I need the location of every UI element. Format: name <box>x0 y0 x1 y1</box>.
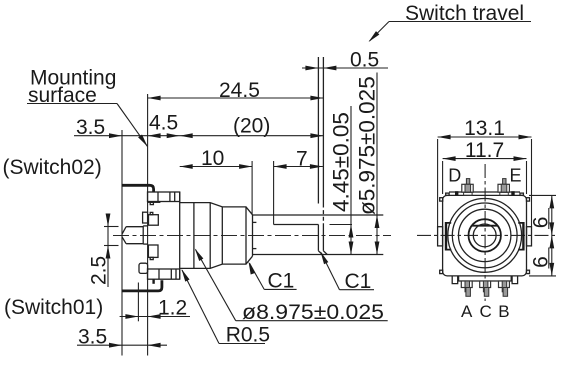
svg-text:1.2: 1.2 <box>158 297 187 320</box>
side tab left <box>438 227 443 246</box>
bushing face <box>252 215 254 256</box>
svg-text:(Switch02): (Switch02) <box>3 156 102 179</box>
svg-text:0.5: 0.5 <box>350 48 379 71</box>
horizontal centerline <box>417 234 556 236</box>
flat extension segment <box>330 224 353 226</box>
leader ø8.975±0.025 <box>236 320 388 322</box>
plunger housing <box>143 225 147 227</box>
push plunger <box>126 226 143 228</box>
side bracket right (black) <box>518 222 524 251</box>
dimension 6 upper <box>529 194 556 196</box>
shaft flat line <box>274 224 319 226</box>
top black tabs <box>455 191 458 195</box>
dimension 3.5 lower <box>77 344 167 346</box>
bushing cone bottom profile <box>180 256 253 268</box>
body inner step below top lug <box>148 201 161 203</box>
bottom lug row <box>148 269 180 279</box>
leader C1 left <box>264 288 296 290</box>
pin E <box>503 179 506 185</box>
svg-text:10: 10 <box>201 147 224 170</box>
dimension 11.7 <box>442 161 444 194</box>
dimension 13.1 <box>437 139 439 227</box>
top terminal (thick bent leg) <box>122 185 154 192</box>
bottom strip <box>459 276 512 281</box>
circles <box>448 199 522 273</box>
svg-text:24.5: 24.5 <box>219 79 260 102</box>
svg-text:2.5: 2.5 <box>88 256 111 285</box>
PCB reference line x=122 <box>121 130 123 356</box>
top seam line <box>449 191 520 193</box>
dimension 2.5 <box>104 226 119 228</box>
body right edge <box>179 192 181 279</box>
shaft end face (pressed) <box>317 57 319 204</box>
svg-text:3.5: 3.5 <box>78 325 107 348</box>
dimension ø5.975±0.025 <box>376 73 378 255</box>
dimension 10 <box>180 166 252 168</box>
bushing verticals <box>193 203 195 269</box>
dimension 0.5 switch travel <box>302 67 388 69</box>
svg-text:B: B <box>498 302 509 321</box>
dimension 1.2 <box>137 283 139 322</box>
bottom lug stub <box>152 279 154 284</box>
svg-text:C1: C1 <box>345 270 372 293</box>
shaft bottom line + extension <box>253 254 384 256</box>
bushing cone top profile <box>180 203 253 215</box>
svg-text:C1: C1 <box>268 270 295 293</box>
svg-text:ø8.975±0.025: ø8.975±0.025 <box>242 301 384 324</box>
svg-text:R0.5: R0.5 <box>226 323 270 346</box>
corner ears right <box>527 198 530 201</box>
pin A <box>461 281 472 288</box>
face nubs at shaft exit <box>253 221 257 223</box>
lower detent box <box>148 245 158 257</box>
lower left tab <box>139 263 148 273</box>
svg-text:11.7: 11.7 <box>465 139 504 162</box>
upper left tab <box>143 212 148 223</box>
travel reference line <box>322 57 324 204</box>
svg-text:13.1: 13.1 <box>464 117 505 140</box>
shaft end chamfer C1 <box>318 251 322 255</box>
body square <box>443 195 527 276</box>
side bracket left (black) <box>445 222 451 251</box>
top lug row <box>148 192 180 202</box>
svg-text:ø5.975±0.025: ø5.975±0.025 <box>355 76 380 215</box>
svg-text:(20): (20) <box>233 115 270 138</box>
svg-text:4.45±0.05: 4.45±0.05 <box>329 112 354 212</box>
svg-text:7: 7 <box>296 148 308 171</box>
leader Switch travel <box>389 21 531 23</box>
pin D <box>466 179 469 185</box>
svg-text:D: D <box>448 166 461 186</box>
svg-text:(Switch01): (Switch01) <box>4 296 103 319</box>
inner circle <box>473 224 496 247</box>
dimension 24.5 <box>148 97 324 99</box>
pin C <box>480 281 491 288</box>
centerline (shaft axis) <box>113 235 391 237</box>
bottom terminal (thick bent leg) <box>122 280 162 291</box>
upper detent box <box>149 215 159 226</box>
corner ears left <box>440 198 443 201</box>
shaft top line + extension <box>253 214 384 216</box>
leader C1 right <box>340 289 375 291</box>
leader R0.5 <box>219 343 265 345</box>
svg-text:E: E <box>510 166 522 186</box>
svg-text:C: C <box>480 302 492 321</box>
pin B <box>499 281 510 288</box>
svg-text:Switch travel: Switch travel <box>405 2 524 25</box>
shaft circle <box>469 219 501 251</box>
side tab right <box>527 227 532 246</box>
bottom hooks <box>452 276 458 284</box>
shaft flat chord <box>472 225 498 227</box>
svg-text:4.5: 4.5 <box>149 112 178 135</box>
dimension chain 3.5 / 4.5 / (20) <box>74 135 323 137</box>
dimension 4.45±0.05 <box>350 106 352 255</box>
top edge bumps <box>446 193 449 195</box>
vertical centerline <box>484 164 486 301</box>
mounting surface line x=147.6 <box>147 94 149 356</box>
dimension 7 <box>274 166 323 168</box>
svg-text:3.5: 3.5 <box>76 116 105 139</box>
dimension 6 lower <box>549 235 554 248</box>
svg-text:A: A <box>461 302 473 321</box>
